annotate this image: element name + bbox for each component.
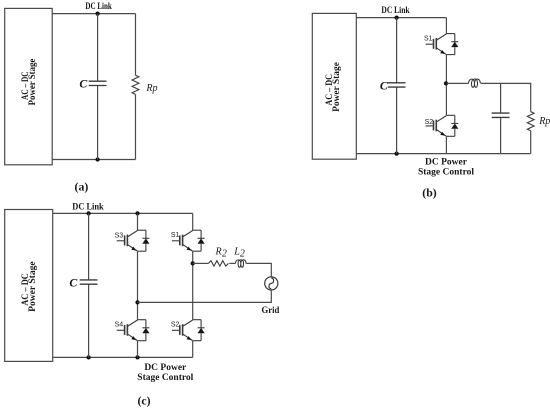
svg-text:Stage Control: Stage Control [137,373,193,383]
wire output capacitor branch (b) [500,83,502,153]
svg-text:S2: S2 [171,321,180,328]
svg-text:S3: S3 [115,232,124,239]
node dot cap top (c) [86,211,90,215]
capacitor C (c) [80,280,98,284]
svg-text:Power Stage: Power Stage [28,261,38,312]
svg-text:(b): (b) [422,185,436,199]
wire L2 to grid (c) [246,263,271,276]
AC-DC power stage box (c) [5,210,53,362]
resistor Rp (b) [527,112,534,131]
svg-text:Grid: Grid [262,306,280,316]
svg-text:S1: S1 [171,232,180,239]
svg-text:DC Power: DC Power [425,158,468,168]
node dot top (b) [394,15,398,19]
svg-text:Rp: Rp [538,116,550,127]
capacitor C (a) [89,81,107,85]
node dot top (a) [95,11,99,15]
wire R2 to L2 (c) [229,262,235,264]
svg-text:2: 2 [222,249,227,260]
wire top rail (b) [356,17,446,19]
wire capacitor branch (b) [396,18,398,154]
node dot left leg bottom (c) [135,355,139,359]
svg-text:(c): (c) [137,394,150,408]
svg-text:Rp: Rp [145,83,157,94]
node dot right leg midpoint (c) [191,261,195,265]
svg-text:S1: S1 [424,35,433,42]
svg-text:(a): (a) [75,180,89,194]
wire top rail (c) [53,212,193,214]
wire bottom rail (c) [53,356,193,358]
AC source circle Grid (c) [265,277,278,290]
wire inductor to output (b) [481,83,531,153]
transistor S3 (c) [117,230,150,251]
wire capacitor branch (c) [88,213,90,357]
node dot left leg top (c) [135,211,139,215]
node dot cap bottom (c) [86,355,90,359]
wire right branch (a) [135,14,137,160]
svg-text:DC Link: DC Link [381,6,410,16]
svg-text:R: R [215,246,222,257]
resistor Rp (a) [132,75,139,94]
AC-DC power stage box (a) [5,8,53,164]
capacitor output filter (b) [492,113,510,117]
svg-text:C: C [79,77,87,91]
node dot bottom (a) [95,157,99,161]
transistor S4 (c) [117,320,150,341]
wire top rail (a) [52,13,135,15]
wire bottom rail (a) [52,159,135,161]
node dot left leg midpoint (c) [135,300,139,304]
transistor S2 (c) [172,320,205,341]
svg-text:DC Link: DC Link [85,2,112,12]
wire bottom rail (b) [356,153,530,155]
svg-text:S2: S2 [425,119,434,126]
wire right leg (c) [192,213,194,357]
AC-DC power stage box (b) [312,13,356,159]
svg-text:Stage Control: Stage Control [418,168,474,178]
transistor S2 (b) [426,115,459,136]
inductor L (b) [469,79,481,87]
inductor L2 (c) [235,260,246,268]
wire switching leg (b) [445,18,447,154]
transistor S1 (c) [172,230,205,251]
svg-text:Power Stage: Power Stage [332,62,342,112]
svg-text:C: C [380,79,388,93]
wire capacitor branch (a) [97,14,99,160]
wire grid return (c) [138,290,272,302]
node dot bottom (b) [394,151,398,155]
svg-text:C: C [69,276,77,290]
node dot midpoint (b) [444,81,448,85]
wire midpoint to inductor (b) [446,82,468,84]
transistor S1 (b) [426,34,459,55]
wire midpoint to R2 (c) [193,262,209,264]
svg-text:DC Power: DC Power [144,363,187,373]
svg-text:2: 2 [240,249,245,260]
wire left leg (c) [137,213,139,357]
AC source sine symbol (c) [269,278,274,289]
resistor R2 (c) [208,261,228,266]
capacitor C (b) [388,83,406,87]
svg-text:Power Stage: Power Stage [28,59,38,106]
svg-text:DC Link: DC Link [72,202,104,212]
svg-text:S4: S4 [115,322,124,329]
